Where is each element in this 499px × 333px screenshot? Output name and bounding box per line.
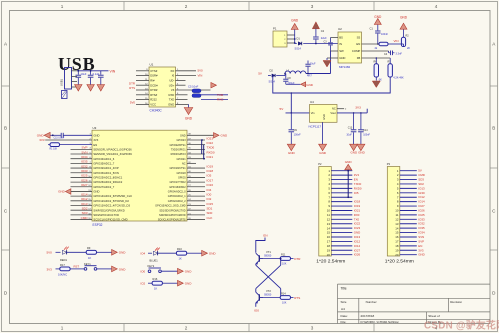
ground at C14 [357,144,366,154]
svg-text:C1: C1 [370,26,374,30]
ground flag KEY1 row [112,266,127,272]
svg-text:GPIO32/ADC1_4/XP: GPIO32/ADC1_4/XP [93,166,118,170]
svg-text:IO14: IO14 [418,200,425,204]
svg-text:GND: GND [288,151,296,155]
U3 left net labels [81,146,89,220]
svg-text:IO27: IO27 [418,204,425,208]
svg-text:File:: File: [341,320,347,324]
wire EN pin1 row with series cap C15 [50,133,92,140]
svg-text:IO16: IO16 [207,183,214,187]
capacitor C11 0.1uF [88,71,100,82]
P2 pin wires [331,171,352,255]
svg-text:GPIO5: GPIO5 [178,177,186,180]
svg-text:B: B [4,126,7,131]
U1 right pin names [168,69,175,107]
svg-text:FB: FB [357,56,361,60]
net label VIN on XI [198,74,203,78]
P2 net labels [354,173,362,257]
svg-text:IO22: IO22 [207,141,214,145]
svg-text:16: 16 [395,235,399,239]
inductor L1 [285,69,312,78]
svg-text:IO19: IO19 [354,204,361,208]
svg-text:22uF: 22uF [321,36,327,40]
capacitor C1 100nF at EN [370,25,389,45]
svg-text:GND: GND [345,160,353,164]
P3 pin numbers [395,169,399,257]
svg-text:XI: XI [172,74,175,78]
svg-text:10uF: 10uF [310,63,316,66]
svg-text:IO13: IO13 [81,202,88,206]
svg-text:18: 18 [395,244,399,248]
svg-text:D:\WORK\..\CH340.SchDoc: D:\WORK\..\CH340.SchDoc [361,320,400,324]
capacitor C7 22uF [313,29,327,45]
svg-text:SD2: SD2 [82,206,88,210]
U3 left pin wires [45,140,92,220]
net label RTS [294,296,300,300]
svg-text:USB1: USB1 [59,78,63,86]
resistor R4 47K [375,42,401,50]
svg-text:IO13: IO13 [418,186,425,190]
ground flag above C1 [374,15,382,25]
svg-text:18: 18 [327,244,331,248]
U3 left pin numbers [88,134,91,220]
net label RST [74,265,80,269]
U1 left pin numbers [145,69,148,105]
connector P3 body [385,162,414,265]
connector J1 USB socket [59,68,77,90]
svg-text:EN: EN [93,143,97,147]
svg-text:10K: 10K [282,262,287,265]
net labels on U1 left pins [129,81,135,104]
svg-text:R232: R232 [150,98,157,102]
svg-text:RI#: RI# [150,79,155,83]
ground flag KEY2 row [178,268,193,274]
wire U4 Vout 3V3 rail [337,109,367,114]
junction dots on VBUS [77,70,91,72]
svg-text:R9: R9 [87,246,91,250]
svg-text:17: 17 [395,240,399,244]
svg-text:CLK: CLK [207,216,213,220]
svg-text:CH340C: CH340C [150,109,163,113]
svg-text:VT1: VT1 [266,250,271,254]
svg-text:GPIO35/ADC1_7: GPIO35/ADC1_7 [93,161,114,165]
capacitor C12 0.1uF [98,71,104,82]
ground flag at P2 pin1 [345,160,353,171]
svg-text:SD1/SD/GPIO8/U2TXD: SD1/SD/GPIO8/U2TXD [159,209,185,212]
svg-text:DTR#: DTR# [150,88,158,92]
svg-text:EN: EN [356,42,360,46]
svg-text:GND: GND [168,103,174,107]
svg-text:GND: GND [58,190,66,194]
P2 pin numbers [327,169,331,257]
svg-text:IO17: IO17 [207,178,214,182]
svg-text:TXD0/GPIO1: TXD0/GPIO1 [171,148,186,151]
ground at R6 [372,81,380,88]
svg-text:IO21: IO21 [207,155,214,159]
svg-text:UD+: UD+ [169,83,175,87]
svg-text:NCP1117: NCP1117 [309,124,322,128]
svg-text:GPIO2/ADC2_2: GPIO2/ADC2_2 [168,200,186,203]
svg-text:SVN: SVN [418,235,424,239]
svg-text:100nF: 100nF [381,33,389,36]
pullup resistor R1 on EN row [48,143,92,151]
net label VIN at R4 [394,39,399,43]
svg-text:SD3: SD3 [418,178,424,182]
svg-text:GND: GND [354,231,360,235]
svg-text:GND: GND [400,15,408,19]
net label IO0 bottom [254,308,259,312]
svg-text:IO13: IO13 [354,235,361,239]
resistor R9 1K [86,246,111,260]
svg-text:Vin: Vin [311,111,315,115]
capacitor C6 10uF near SW [305,61,316,75]
svg-text:SVN: SVN [81,150,87,154]
U1 right pin wires [176,71,211,105]
svg-text:GND: GND [350,150,358,154]
svg-text:SENSOR_VN/ADC1_3/GPIO39: SENSOR_VN/ADC1_3/GPIO39 [93,152,132,156]
resistor R6 10K [374,58,383,81]
U1 left pin names [150,69,158,107]
svg-text:SCK/CLK/GPIO6/U2RTS: SCK/CLK/GPIO6/U2RTS [158,219,186,222]
svg-text:16: 16 [327,235,331,239]
svg-text:GPIO33/ADC1_5/XN: GPIO33/ADC1_5/XN [93,171,118,175]
resistor R17 10K/NC [58,263,84,277]
margin zone letters [4,42,496,296]
svg-text:IO26: IO26 [354,253,361,257]
svg-text:BS: BS [339,36,343,40]
ground at U2 [323,61,331,68]
svg-text:IO4: IO4 [207,188,212,192]
wire inductor to 5V node [284,73,286,76]
ground flag row1 left [37,132,50,138]
svg-text:1: 1 [61,326,64,331]
svg-text:RED1: RED1 [60,258,67,262]
resistor R14 10K [263,293,294,305]
svg-text:P2: P2 [318,162,322,166]
svg-text:IO0: IO0 [207,192,212,196]
svg-text:1*20 2.54mm: 1*20 2.54mm [316,259,345,265]
title block frame [338,284,491,323]
svg-text:10: 10 [395,209,399,213]
net label 5V at D2 [258,71,263,75]
svg-text:GND: GND [119,267,127,271]
svg-text:IO12: IO12 [418,195,425,199]
svg-text:RTS#: RTS# [150,93,157,97]
U2 pin names [339,36,360,61]
svg-text:10uF: 10uF [81,72,87,76]
net label IO0 KEY2 row [141,270,148,274]
svg-text:ESP32: ESP32 [93,223,103,227]
svg-text:RXD0/GPIO3: RXD0/GPIO3 [171,153,187,156]
svg-text:3: 3 [311,326,314,331]
svg-text:GND: GND [221,134,229,138]
svg-text:IO27: IO27 [81,183,88,187]
wire 5V feedback rail [272,75,390,94]
svg-text:TXD: TXD [169,98,175,102]
svg-text:5V0: 5V0 [47,251,53,255]
svg-text:IO0: IO0 [254,308,259,312]
ground flag above R2 [400,15,408,29]
svg-text:15: 15 [395,231,399,235]
svg-text:GND: GND [291,19,299,23]
svg-text:GPIO17/TXD2: GPIO17/TXD2 [169,181,186,184]
svg-text:RXD0: RXD0 [354,186,362,190]
svg-text:C13: C13 [348,127,353,130]
wire cross-couple X [256,258,282,299]
svg-text:VCC: VCC [150,103,156,107]
svg-text:SS14: SS14 [269,79,276,83]
svg-text:GND: GND [322,114,326,120]
svg-text:IO32: IO32 [418,222,425,226]
ground at C11 [87,82,95,92]
svg-text:IO26: IO26 [81,178,88,182]
svg-text:R10: R10 [177,247,182,251]
svg-text:2K: 2K [407,47,410,50]
svg-text:V3: V3 [171,88,175,92]
svg-text:3V3: 3V3 [354,173,360,177]
svg-text:RXD0: RXD0 [207,150,215,154]
resistor R2 22K pullup [401,29,411,50]
svg-text:U2: U2 [338,27,342,31]
svg-text:IO12: IO12 [354,239,361,243]
svg-text:GND: GND [418,191,424,195]
svg-text:GND: GND [418,253,424,257]
svg-text:GND: GND [339,56,345,60]
net label IO2 R16 row [141,282,153,286]
wire U4 GND pin [322,122,324,144]
svg-text:TXD0: TXD0 [207,146,215,150]
wire EN to VT1 collector [256,238,265,253]
svg-text:IO35: IO35 [418,226,425,230]
svg-text:P3: P3 [387,162,391,166]
svg-text:IO14: IO14 [354,244,361,248]
svg-text:Size: Size [341,300,347,304]
wire VT2 emitter [255,303,257,307]
svg-text:D1: D1 [297,36,301,40]
svg-text:3V3: 3V3 [93,138,98,142]
svg-text:C15 0.1uF: C15 0.1uF [54,138,65,140]
svg-text:TXD: TXD [217,93,224,97]
svg-text:S8050: S8050 [264,255,272,258]
svg-text:3V3: 3V3 [418,248,424,252]
svg-text:DSR#: DSR# [150,74,158,78]
svg-text:11: 11 [395,213,398,217]
svg-text:GPIO21: GPIO21 [177,158,187,161]
svg-text:GPIO22/RTS1: GPIO22/RTS1 [170,144,187,147]
svg-text:IO12: IO12 [81,197,88,201]
svg-text:GPIO23: GPIO23 [177,139,187,142]
capacitor C3 BS bootstrap [324,38,339,52]
svg-text:IO23: IO23 [207,136,214,140]
svg-text:1K: 1K [179,257,182,261]
svg-text:IO18: IO18 [207,169,214,173]
U1 right pin numbers [177,69,179,105]
svg-text:COMP: COMP [352,49,361,53]
svg-text:13: 13 [395,222,399,226]
svg-text:BLUE1: BLUE1 [150,259,159,263]
svg-text:IO25: IO25 [81,174,88,178]
svg-text:GND: GND [209,252,217,256]
svg-text:R17: R17 [60,263,65,267]
svg-text:GPIO18: GPIO18 [177,172,187,175]
svg-text:RTS: RTS [294,296,300,300]
net label RXD [217,98,224,102]
resistor R11 10K [263,254,294,266]
svg-text:IO35: IO35 [81,160,88,164]
U3 right pin wires [187,140,205,220]
U1 left pin wires [136,71,149,105]
svg-text:GND: GND [119,251,127,255]
wire LDO Vin [286,93,310,114]
ferrite bead on TXD line [192,94,228,100]
svg-text:XO: XO [170,69,174,73]
U4 pin names [311,106,336,120]
USB title text [58,54,95,74]
svg-text:1: 1 [61,4,64,9]
svg-text:12: 12 [395,217,399,221]
svg-text:RXD: RXD [168,93,174,97]
svg-text:220uF: 220uF [288,82,296,85]
svg-text:2017/8/18: 2017/8/18 [361,314,375,318]
svg-text:VT2: VT2 [266,289,271,293]
IC U4 LDO body [309,100,338,128]
svg-text:GPIO13/ADC2_4/TCK/SD_D3: GPIO13/ADC2_4/TCK/SD_D3 [93,204,130,208]
svg-text:CSDN @驴友花刚: CSDN @驴友花刚 [424,319,499,332]
svg-text:IO34: IO34 [418,231,425,235]
svg-text:SD0: SD0 [207,211,213,215]
svg-text:RX0: RX0 [354,213,360,217]
ground flag LED row [112,249,127,255]
svg-text:EN: EN [354,178,358,182]
svg-text:R11: R11 [281,254,286,257]
svg-text:IO25: IO25 [418,213,425,217]
svg-text:Date:: Date: [341,314,349,318]
svg-text:C2: C2 [321,29,325,33]
svg-text:Sheet of: Sheet of [428,314,440,318]
svg-text:3.3nF: 3.3nF [396,52,403,55]
wire P1 join [294,35,296,44]
svg-text:R16: R16 [153,277,158,281]
svg-text:UD-: UD- [169,79,174,83]
wire TXD0 RXD0 jog [201,139,205,160]
svg-text:NC: NC [332,106,336,110]
wire U3 pin GND right [187,134,214,136]
svg-text:GND: GND [37,134,45,138]
svg-text:GPIO4/ADC2_0: GPIO4/ADC2_0 [168,191,186,194]
net label 3V3 on row2 [39,138,45,142]
svg-text:U1: U1 [150,63,154,67]
transistor VT2 S8050 [256,289,272,304]
svg-text:IN: IN [339,42,342,46]
watermark [424,319,499,332]
svg-text:Revision: Revision [450,300,462,304]
svg-text:IO5: IO5 [354,191,359,195]
svg-text:1K: 1K [154,287,157,291]
svg-text:20: 20 [327,253,331,257]
svg-text:3: 3 [311,4,314,9]
svg-text:3V3: 3V3 [39,138,45,142]
resistor R10 1K [176,247,201,261]
svg-text:SW: SW [339,49,344,53]
U4 NC stub [337,109,347,111]
svg-text:GPIO25/ADC2_8/DAC1: GPIO25/ADC2_8/DAC1 [93,176,122,180]
svg-text:A4: A4 [341,307,345,311]
svg-text:GPIO27/ADC2_7: GPIO27/ADC2_7 [93,185,114,189]
svg-text:GND: GND [93,133,99,137]
ground flag R16 row [178,280,193,286]
svg-text:19: 19 [327,248,331,252]
capacitor C8 output 220uF [283,74,300,86]
USB shield lug F1 [62,91,68,99]
svg-text:EN: EN [418,244,422,248]
net label 3V3 [355,105,361,109]
svg-text:14: 14 [395,226,399,230]
U3 right pin names [155,134,186,221]
svg-text:10: 10 [327,209,331,213]
wire P2 gnd bus [347,170,349,198]
svg-text:SVP: SVP [418,239,424,243]
svg-text:GND: GND [185,270,193,274]
net label IO4 BLUE LED row [141,252,153,256]
svg-text:17: 17 [327,240,331,244]
ground flag row13 left [58,189,92,195]
svg-text:GND: GND [185,117,193,121]
svg-text:RTS: RTS [129,86,135,90]
svg-text:IO0: IO0 [141,270,146,274]
svg-text:CMD: CMD [81,216,89,220]
P3 pin wires [400,171,417,255]
svg-text:IO34: IO34 [81,155,88,159]
svg-text:10uF: 10uF [346,134,352,137]
svg-text:IO2: IO2 [141,282,146,286]
svg-text:3V3: 3V3 [355,105,361,109]
U3 left pin names [93,133,132,221]
connector P2 body [316,162,345,265]
svg-text:SCS/CLK/GPIO11/SD_CMD: SCS/CLK/GPIO11/SD_CMD [93,218,127,222]
svg-text:SVP: SVP [81,146,87,150]
svg-text:R1 10K: R1 10K [50,148,58,150]
capacitor C9 100nF at Vin [289,113,302,144]
net label 3V3 KEY1 row [47,267,60,271]
svg-text:GND: GND [319,151,327,155]
ground flag row1 right [214,133,229,139]
net label EN top of VT1 [263,233,267,237]
margin zone numbers [61,4,438,330]
ferrite bead on RXD line [192,89,228,95]
U3 right pin numbers [188,134,191,220]
svg-text:IO27: IO27 [354,248,361,252]
capacitor C10 10uF [76,71,87,82]
svg-text:EN: EN [263,233,267,237]
svg-text:GND: GND [180,134,186,137]
IC U3 ESP32 body [92,126,187,227]
svg-text:B: B [492,126,495,131]
margin row ticks [2,86,498,250]
svg-text:VIN: VIN [394,39,399,43]
svg-text:IO21: IO21 [354,208,361,212]
svg-text:R14: R14 [281,293,286,296]
net label VIN [110,70,116,74]
svg-text:SD3/GPIO10/U1TXD: SD3/GPIO10/U1TXD [93,213,119,217]
svg-text:GND: GND [358,150,366,154]
wire U1 GND down [188,104,190,107]
connector P1 power input [273,27,295,48]
power arrow on UD+ row [211,82,217,88]
svg-text:IO2: IO2 [207,197,212,201]
svg-text:2: 2 [185,4,188,9]
wire SW to inductor [306,51,338,74]
ground at C9 [287,144,295,155]
